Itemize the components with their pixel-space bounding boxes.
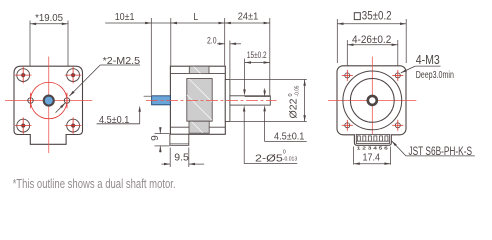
footnote dual shaft motor (13, 176, 176, 191)
svg-text:*This outline shows a dual sha: *This outline shows a dual shaft motor. (13, 176, 176, 188)
svg-text:6: 6 (148, 135, 159, 141)
red bolt circle (31, 82, 68, 119)
M3 mounting hole 1 (345, 73, 350, 78)
front shaft (230, 96, 270, 105)
top dimension chain line (105, 22, 270, 24)
dimension 4-26±0.2 extension lines (346, 40, 348, 73)
end bell bottom line (170, 126, 225, 128)
svg-text:17.4: 17.4 (363, 152, 381, 164)
front shaft end circle (44, 96, 53, 105)
extension line front shaft end (269, 18, 271, 95)
label JST S6B-PH-K-S with leader (392, 141, 406, 156)
corner screw 1 red crosshair (15, 74, 31, 76)
svg-text:1 2 3 4 5 6: 1 2 3 4 5 6 (357, 146, 389, 151)
svg-text:4-26±0.2: 4-26±0.2 (352, 34, 391, 46)
extension line rear shaft end (150, 18, 152, 95)
dimension 6 connector height (155, 133, 170, 135)
M3 mounting hole 3 (345, 123, 350, 128)
extension line front body face (224, 18, 226, 66)
svg-text:*19.05: *19.05 (35, 12, 63, 24)
svg-text:L: L (193, 11, 198, 23)
JST connector rear view (354, 134, 391, 145)
corner screw 3 red crosshair (15, 125, 31, 127)
corner screw 4 red crosshair (65, 125, 81, 127)
rear shaft (blue, dual shaft) (152, 96, 171, 105)
motor body side view (170, 66, 225, 134)
dimension 2.0 (217, 43, 225, 45)
svg-text:4.5±0.1: 4.5±0.1 (274, 130, 305, 142)
stator lamination block (187, 79, 212, 122)
end bell top line (170, 73, 225, 75)
svg-text:10±1: 10±1 (115, 11, 135, 23)
dimension 15±0.2 (245, 62, 270, 64)
svg-text:4.5±0.1: 4.5±0.1 (99, 114, 129, 126)
corner screw 2 (67, 69, 80, 82)
end bell circle (343, 71, 402, 130)
M3 mounting hole 4 (395, 123, 400, 128)
M3 hole 3 red crosshair (342, 124, 353, 126)
corner screw 3 (17, 119, 30, 132)
M3 mounting hole 2 (395, 73, 400, 78)
connector side view (170, 134, 189, 145)
dimension 4.5±0.1 front shaft flat (264, 89, 266, 91)
M2.5 tapped hole right (64, 98, 69, 103)
red centerline horizontal left view (5, 100, 92, 102)
svg-text:35±0.2: 35±0.2 (362, 11, 392, 23)
dimension 9.5 connector depth (169, 148, 171, 168)
dimension square35 line (337, 23, 406, 25)
M3 hole 2 red crosshair (392, 74, 403, 76)
rear boss circle (350, 79, 394, 123)
red centerline vertical rear view (371, 57, 373, 145)
extension line rear body face (170, 18, 172, 66)
M2.5 tapped hole left (28, 98, 33, 103)
dimension *19.05 extension lines (29, 21, 31, 96)
svg-text:0: 0 (283, 150, 286, 156)
corner screw 2 red crosshair (65, 74, 81, 76)
rear view square body (337, 66, 406, 135)
red centerline horizontal rear view (328, 99, 416, 101)
label 2-Ø5 0/-0.013 (244, 163, 297, 165)
front flange outline (14, 66, 83, 144)
svg-text:-0.05: -0.05 (295, 86, 301, 97)
svg-text:2-Ø5: 2-Ø5 (255, 153, 283, 165)
svg-text:0: 0 (288, 93, 294, 96)
svg-text:24±1: 24±1 (238, 10, 259, 22)
red center axis side view (146, 99, 277, 101)
svg-text:Deep3.0min: Deep3.0min (416, 70, 454, 81)
M3 hole 4 red crosshair (392, 124, 403, 126)
svg-text:2.0: 2.0 (207, 36, 217, 47)
M3 hole 1 red crosshair (342, 74, 353, 76)
svg-text:Ø22: Ø22 (288, 98, 300, 118)
dimension *19.05 line (30, 23, 68, 25)
leader line *2-M2.5 (69, 65, 100, 96)
stator lamination top strip (189, 66, 209, 73)
dimension Ø22 line (304, 80, 306, 122)
front shaft flat line (244, 95, 246, 98)
svg-text:4-M3: 4-M3 (416, 53, 440, 67)
svg-text:15±0.2: 15±0.2 (247, 50, 267, 61)
dimension text Ø22 0/-0.05 rotated (288, 98, 300, 118)
dimension Ø22 extension lines (231, 79, 307, 81)
front pilot boss (225, 80, 230, 122)
corner screw 1 (17, 69, 30, 82)
rear shaft circle (368, 96, 377, 105)
dimension 4-26±0.2 line (347, 44, 398, 46)
red centerline vertical left view (48, 57, 50, 154)
svg-text:-0.013: -0.013 (283, 157, 297, 163)
stator lamination bottom strip (189, 121, 209, 133)
dimension square35 extension lines (336, 19, 338, 63)
dimension 17.4 (353, 147, 355, 165)
svg-text:JST S6B-PH-K-S: JST S6B-PH-K-S (409, 144, 473, 158)
dimension text □35±0.2 (354, 13, 360, 20)
dimension 2-Ø5 leader (243, 111, 245, 163)
svg-text:9.5: 9.5 (174, 152, 189, 164)
corner screw 4 (67, 119, 80, 132)
